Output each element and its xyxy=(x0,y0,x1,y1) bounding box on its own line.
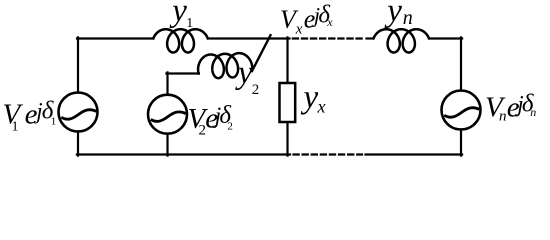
label yx xyxy=(301,79,326,116)
label V1 xyxy=(3,98,57,135)
wire right vertical upper xyxy=(460,37,462,90)
svg-text:x: x xyxy=(295,21,303,37)
label Vn xyxy=(485,91,536,125)
svg-text:y: y xyxy=(384,0,402,29)
svg-text:n: n xyxy=(530,105,536,119)
wire bottom dashed xyxy=(294,153,363,155)
svg-text:2: 2 xyxy=(227,121,233,133)
source V2 xyxy=(148,95,187,134)
svg-text:1: 1 xyxy=(186,16,193,31)
label Vx xyxy=(280,2,333,38)
wire diagonal from y2 to node xyxy=(252,35,271,71)
svg-text:y: y xyxy=(169,0,187,29)
svg-text:x: x xyxy=(326,15,333,29)
label yn xyxy=(384,0,413,29)
wire top-left horizontal xyxy=(77,37,153,39)
wire top dashed xyxy=(293,37,364,39)
wire yx branch vertical lower xyxy=(286,122,288,156)
source Vn xyxy=(442,91,481,130)
svg-text:2: 2 xyxy=(252,82,259,98)
wire V2 branch horizontal xyxy=(166,72,199,74)
label y2 xyxy=(235,55,259,98)
wire V2 branch vertical lower xyxy=(166,134,168,156)
svg-text:n: n xyxy=(499,109,507,125)
impedance box yx xyxy=(280,83,296,122)
svg-text:1: 1 xyxy=(51,115,57,127)
inductor y1 xyxy=(153,29,208,52)
wire left vertical xyxy=(77,37,79,92)
wire after yn to corner xyxy=(429,37,462,39)
wire below V1 xyxy=(77,131,79,155)
label y1 xyxy=(169,0,193,31)
label V2 xyxy=(188,102,233,138)
svg-text:n: n xyxy=(403,7,413,29)
svg-text:y: y xyxy=(301,79,319,115)
inductor yn xyxy=(374,29,430,52)
source V1 xyxy=(59,93,98,132)
wire bottom solid right xyxy=(366,153,463,155)
wire V2 branch vertical upper xyxy=(166,72,168,94)
wire top between y1 and node xyxy=(208,37,290,39)
inductor y2 xyxy=(198,53,252,78)
svg-text:1: 1 xyxy=(12,120,19,135)
wire right vertical lower xyxy=(460,129,462,155)
svg-text:y: y xyxy=(235,55,253,91)
wire stub before yn xyxy=(367,37,374,39)
svg-text:x: x xyxy=(317,97,326,117)
wire yx branch vertical upper xyxy=(286,37,288,83)
wire bottom solid left xyxy=(77,153,290,155)
